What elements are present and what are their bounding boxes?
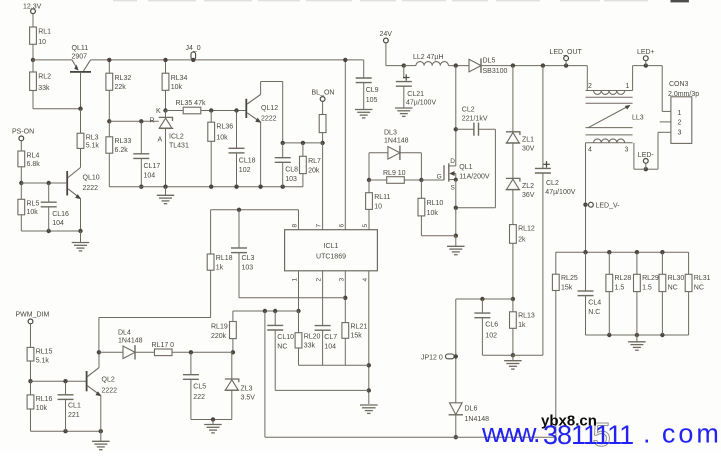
wire <box>542 66 544 169</box>
wire pin 8 <box>298 210 300 230</box>
svg-text:4: 4 <box>362 278 369 282</box>
diode DL5 <box>469 58 508 75</box>
junction <box>211 417 215 421</box>
svg-text:10k: 10k <box>171 84 183 91</box>
junction <box>28 379 32 383</box>
svg-text:RL20: RL20 <box>304 334 321 341</box>
svg-text:3: 3 <box>678 129 682 136</box>
diode DL3 <box>384 130 409 161</box>
svg-text:102: 102 <box>485 333 497 340</box>
capacitor CL2 221/1kV <box>462 106 488 136</box>
resistor RL32 <box>106 73 131 91</box>
transistor QL1 (N-MOSFET 11A/200V) <box>437 158 490 191</box>
junction <box>402 63 406 67</box>
resistor RL1 <box>30 27 52 46</box>
svg-text:104: 104 <box>52 220 64 227</box>
wire <box>80 231 82 243</box>
wire <box>634 168 646 170</box>
resistor RL10 <box>418 198 443 217</box>
svg-text:LED_V-: LED_V- <box>596 203 621 210</box>
wire <box>201 110 246 112</box>
svg-text:221/1kV: 221/1kV <box>462 116 488 123</box>
junction <box>209 108 213 112</box>
svg-text:RL32: RL32 <box>115 75 132 82</box>
wire <box>645 61 647 66</box>
svg-text:N.C: N.C <box>588 309 600 316</box>
wire dim net <box>99 351 123 353</box>
wire <box>108 153 110 187</box>
svg-text:CL17: CL17 <box>144 163 161 170</box>
wire <box>632 66 634 91</box>
svg-text:DL5: DL5 <box>483 58 496 65</box>
wire <box>369 179 387 181</box>
wire <box>33 59 72 61</box>
wire CON3 pin2 stub <box>660 121 671 123</box>
terminal LED_OUT <box>550 49 583 61</box>
junction <box>367 388 371 392</box>
junction <box>47 229 51 233</box>
wire <box>32 14 34 27</box>
terminal LED+ <box>637 49 655 61</box>
svg-text:RL2: RL2 <box>38 74 51 81</box>
capacitor CL17 <box>133 154 160 180</box>
svg-text:2: 2 <box>678 120 682 127</box>
wire <box>494 129 496 208</box>
transformer LL3 <box>586 83 644 154</box>
op-amp U-ICL2 TL431 shunt reference <box>150 111 189 150</box>
junction <box>607 250 611 254</box>
wire <box>363 83 365 110</box>
wire <box>608 292 610 335</box>
wire <box>369 152 388 154</box>
wire <box>166 110 184 112</box>
wire <box>456 128 474 130</box>
svg-text:10k: 10k <box>36 405 48 412</box>
svg-text:NC: NC <box>277 344 287 351</box>
svg-text:RL13: RL13 <box>518 313 535 320</box>
svg-text:5.1k: 5.1k <box>86 143 100 150</box>
svg-text:RL19: RL19 <box>211 324 228 331</box>
svg-text:2222: 2222 <box>102 387 118 394</box>
junction <box>281 141 285 145</box>
junction <box>343 296 347 300</box>
wire <box>238 210 240 248</box>
wire <box>512 299 514 312</box>
resistor RL20 <box>295 333 320 350</box>
wire <box>65 399 67 431</box>
wire <box>404 179 421 181</box>
wire <box>420 216 422 236</box>
wire <box>190 379 192 419</box>
capacitor CL1 <box>58 395 81 419</box>
ground G-CL21 <box>395 108 413 116</box>
svg-text:NC: NC <box>694 285 704 292</box>
wire <box>135 351 155 353</box>
svg-text:12.3V: 12.3V <box>23 4 42 11</box>
svg-text:ICL1: ICL1 <box>324 243 339 250</box>
svg-text:102: 102 <box>239 167 251 174</box>
svg-text:DL3: DL3 <box>384 130 397 137</box>
ground G-QL1S <box>447 246 465 254</box>
svg-text:RL9 10: RL9 10 <box>383 170 406 177</box>
wire CON3 pin3 <box>658 131 671 133</box>
wire <box>282 143 284 158</box>
svg-text:1: 1 <box>678 110 682 117</box>
wire <box>190 352 192 374</box>
svg-text:11A/200V: 11A/200V <box>459 174 490 181</box>
svg-text:10k: 10k <box>216 135 228 142</box>
resistor RL17 <box>152 342 175 356</box>
svg-text:CL16: CL16 <box>52 211 69 218</box>
wire <box>274 311 276 325</box>
wire <box>30 381 32 395</box>
wire <box>302 143 304 156</box>
resistor RL31 <box>685 274 710 291</box>
ground G-QL10 <box>72 243 90 251</box>
zener ZL2 <box>506 178 535 199</box>
svg-text:JP12 0: JP12 0 <box>421 354 443 361</box>
svg-text:RL25: RL25 <box>561 275 578 282</box>
capacitor CL5 <box>183 375 206 401</box>
resistor RL7 <box>300 156 322 174</box>
svg-text:RL36: RL36 <box>216 124 233 131</box>
wire <box>282 162 284 186</box>
svg-text:2k: 2k <box>518 237 526 244</box>
svg-text:22k: 22k <box>115 84 127 91</box>
junction <box>644 167 648 171</box>
svg-text:LED_OUT: LED_OUT <box>550 49 583 56</box>
resistor RL3 <box>77 133 99 149</box>
svg-text:J4_0: J4_0 <box>186 45 201 52</box>
wire CL3 to pin3 <box>239 297 345 299</box>
wire <box>420 153 422 180</box>
wire <box>636 292 638 335</box>
svg-text:5: 5 <box>362 224 369 228</box>
diode DL6 1N4148 <box>449 403 490 423</box>
wire <box>455 66 457 130</box>
wire <box>512 355 514 361</box>
capacitor CL7 <box>315 326 338 351</box>
wire <box>633 143 635 169</box>
capacitor CL8 <box>275 158 298 183</box>
junction <box>234 108 238 112</box>
wire <box>20 215 22 231</box>
resistor RL33 <box>106 137 131 154</box>
transistor QL10 (NPN 2222) <box>66 168 99 200</box>
terminal PWM_DIM <box>16 312 50 324</box>
wire <box>165 187 167 196</box>
wire <box>512 66 514 132</box>
svg-text:www.: www. <box>481 418 539 448</box>
wire <box>20 141 22 151</box>
svg-text:R: R <box>150 118 155 125</box>
junction <box>139 119 143 123</box>
connector J4_0 <box>186 45 201 60</box>
svg-text:LED+: LED+ <box>637 49 655 56</box>
svg-text:RL21: RL21 <box>351 324 368 331</box>
wire <box>21 230 80 232</box>
junction <box>63 379 67 383</box>
svg-text:33k: 33k <box>38 85 50 92</box>
wire <box>368 209 370 229</box>
resistor RL19 <box>230 322 237 339</box>
svg-text:5.1k: 5.1k <box>36 358 50 365</box>
wire <box>586 66 588 91</box>
wire <box>232 339 234 353</box>
junction <box>47 181 51 185</box>
svg-text:G: G <box>437 173 442 180</box>
resistor RL29 <box>634 274 659 291</box>
junction <box>454 435 458 439</box>
wire <box>322 133 324 143</box>
wire pin 4 <box>368 271 370 404</box>
wire <box>512 190 514 225</box>
wire <box>172 351 233 353</box>
wire LED_V- stub <box>586 204 589 206</box>
svg-text:RL5: RL5 <box>27 201 40 208</box>
wire <box>191 419 232 421</box>
svg-text:NC: NC <box>668 285 678 292</box>
wire <box>165 60 167 73</box>
wire <box>403 86 405 108</box>
resistor RL36 <box>208 122 233 141</box>
wire <box>298 348 300 365</box>
ground G-CL5 <box>204 425 222 433</box>
wire <box>455 299 457 403</box>
junction <box>367 178 371 182</box>
junction <box>63 429 67 433</box>
wire <box>662 110 671 112</box>
junction <box>273 309 277 313</box>
wire <box>657 132 659 169</box>
svg-text:33k: 33k <box>304 343 316 350</box>
wire <box>20 183 22 199</box>
junction <box>454 354 458 358</box>
svg-text:RL30: RL30 <box>668 275 685 282</box>
wire <box>165 90 167 110</box>
svg-text:D: D <box>450 158 455 165</box>
ground G-QL2 <box>92 441 110 449</box>
wire BL node <box>283 142 323 144</box>
svg-text:RL7: RL7 <box>308 158 321 165</box>
junction <box>419 178 423 182</box>
wire <box>368 153 370 180</box>
svg-text:10: 10 <box>38 39 46 46</box>
svg-text:RL17 0: RL17 0 <box>152 342 175 349</box>
svg-text:RL16: RL16 <box>36 396 53 403</box>
ground G-pin4 <box>360 405 378 413</box>
junction <box>209 185 213 189</box>
wire <box>32 60 34 72</box>
wire <box>302 174 304 187</box>
wire FB node <box>233 310 299 312</box>
svg-text:6.8k: 6.8k <box>27 161 41 168</box>
wire pin 2 <box>322 271 324 326</box>
wire <box>344 338 346 365</box>
wire <box>455 415 457 437</box>
junction <box>237 208 241 212</box>
wire <box>30 324 32 348</box>
svg-text:ZL2: ZL2 <box>522 183 534 190</box>
svg-text:PWM_DIM: PWM_DIM <box>16 312 50 319</box>
wire <box>565 61 567 66</box>
wire <box>48 207 50 231</box>
wire <box>30 361 32 381</box>
diode DL4 <box>118 330 143 360</box>
wire <box>20 167 22 183</box>
wire <box>80 199 82 231</box>
svg-text:1k: 1k <box>518 322 526 329</box>
wire <box>140 158 142 186</box>
junction <box>296 309 300 313</box>
svg-text:CL6: CL6 <box>485 322 498 329</box>
wire <box>512 243 514 299</box>
svg-text:104: 104 <box>144 173 156 180</box>
svg-text:S: S <box>451 185 456 192</box>
resistor R-BLON <box>319 115 326 133</box>
svg-text:CON3: CON3 <box>669 81 689 88</box>
svg-text:ICL2: ICL2 <box>169 134 184 141</box>
resistor RL15 <box>27 347 52 364</box>
resistor RL16 <box>27 395 52 412</box>
terminal 12.3V <box>23 4 42 14</box>
junction <box>644 63 648 67</box>
svg-text:221: 221 <box>68 412 80 419</box>
junction <box>454 234 458 238</box>
wire <box>363 60 365 78</box>
svg-text:QL10: QL10 <box>83 175 100 182</box>
wire pin 7 <box>322 143 324 230</box>
wire <box>282 82 284 143</box>
svg-text:BL_ON: BL_ON <box>312 89 335 96</box>
zener ZL1 <box>506 132 535 153</box>
transistor QL11 (PNP 2907) <box>70 45 91 73</box>
wire gnd net <box>299 364 369 366</box>
wire <box>210 141 212 186</box>
junction <box>163 185 167 189</box>
resistor RL21 <box>342 323 367 340</box>
wire <box>165 128 167 186</box>
resistor RL25 <box>552 274 577 291</box>
svg-text:36V: 36V <box>522 192 535 199</box>
svg-text:2: 2 <box>316 278 323 282</box>
svg-text:CL9: CL9 <box>366 87 379 94</box>
connector CON3 2.0mm/3p <box>668 81 699 143</box>
svg-text:2222: 2222 <box>261 116 277 123</box>
resistor RL13 <box>510 312 535 329</box>
svg-text:6.2k: 6.2k <box>115 147 129 154</box>
wire <box>555 291 557 438</box>
wire pin 6 <box>344 60 346 230</box>
svg-text:2: 2 <box>588 83 592 90</box>
junction <box>231 350 235 354</box>
svg-text:QL11: QL11 <box>72 45 89 52</box>
junction <box>107 119 111 123</box>
svg-text:3: 3 <box>338 278 345 282</box>
junction <box>635 333 639 337</box>
svg-text:. com: . com <box>643 419 721 449</box>
resistor RL2 <box>30 72 52 92</box>
resistor RL5 <box>18 199 40 216</box>
svg-text:RL35 47k: RL35 47k <box>176 100 206 107</box>
node R wire <box>109 120 158 122</box>
wire <box>636 335 638 342</box>
svg-text:47µ/100V: 47µ/100V <box>406 100 436 107</box>
junction <box>454 127 458 131</box>
wire <box>32 91 34 109</box>
wire <box>210 210 212 254</box>
wire <box>455 236 457 247</box>
junction <box>258 185 262 189</box>
junction <box>19 181 23 185</box>
resistor RL18 <box>207 254 232 271</box>
wire <box>140 121 142 154</box>
svg-text:RL4: RL4 <box>27 153 40 160</box>
capacitor CL10 <box>267 325 294 350</box>
capacitor CL18 <box>229 148 256 174</box>
junction <box>139 185 143 189</box>
resistor RL9 <box>383 170 406 183</box>
wire <box>98 318 100 353</box>
wire <box>91 59 364 61</box>
svg-text:LED-: LED- <box>638 152 655 159</box>
terminal LED_V- <box>589 202 621 209</box>
wire <box>80 73 82 109</box>
junction <box>635 250 639 254</box>
junction <box>343 58 347 62</box>
resistor RL4 <box>18 151 40 168</box>
svg-text:3811111: 3811111 <box>543 420 633 450</box>
junction <box>189 350 193 354</box>
svg-text:RL34: RL34 <box>171 75 188 82</box>
wire <box>322 101 324 114</box>
wire <box>100 431 102 441</box>
junction <box>301 141 305 145</box>
svg-text:CL5: CL5 <box>193 384 206 391</box>
svg-text:1.5: 1.5 <box>642 285 652 292</box>
capacitor CL9 <box>356 78 379 104</box>
junction <box>31 58 35 62</box>
capacitor CL4 <box>578 291 602 316</box>
wire <box>322 330 324 365</box>
resistor RL34 <box>162 73 187 91</box>
wire <box>210 270 212 317</box>
junction <box>281 185 285 189</box>
wire <box>236 153 238 187</box>
wire <box>232 311 234 322</box>
wire <box>456 207 496 209</box>
wire <box>420 180 422 198</box>
svg-text:RL33: RL33 <box>115 138 132 145</box>
svg-text:CL1: CL1 <box>68 403 81 410</box>
junction <box>583 250 587 254</box>
svg-text:QL12: QL12 <box>261 105 278 112</box>
junction <box>367 363 371 367</box>
wire <box>661 292 663 335</box>
svg-text:15k: 15k <box>351 333 363 340</box>
wire <box>385 43 387 66</box>
ground G-CS <box>504 361 522 369</box>
terminal LED- <box>638 152 655 163</box>
junction <box>660 333 664 337</box>
wire <box>33 108 81 110</box>
svg-text:1: 1 <box>626 83 630 90</box>
wire <box>636 252 638 274</box>
wire <box>108 121 110 137</box>
capacitor CL16 <box>41 202 69 227</box>
resistor RL11 <box>366 193 391 211</box>
svg-text:RL11: RL11 <box>374 194 390 201</box>
